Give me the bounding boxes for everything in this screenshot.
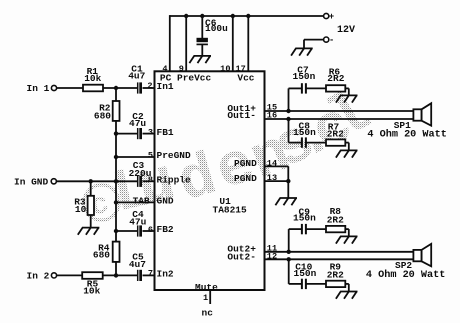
C6 label <box>205 17 217 28</box>
svg-text:9: 9 <box>179 64 184 74</box>
label TAB <box>133 196 150 207</box>
wire In2 c <box>143 274 155 276</box>
svg-text:12: 12 <box>267 252 277 262</box>
junction FB1 bus <box>114 131 118 135</box>
pin number 7 <box>148 268 153 278</box>
R7 refdes <box>328 121 340 132</box>
svg-text:In 1: In 1 <box>27 83 50 94</box>
capacitor C1 <box>138 82 142 93</box>
C4 value 47u <box>129 216 146 227</box>
svg-text:2R2: 2R2 <box>327 128 344 139</box>
wire C9-R8 <box>306 228 326 230</box>
pin number 9 <box>179 64 184 74</box>
wire C6 bottom <box>201 44 203 56</box>
node In 2 terminal <box>51 273 56 278</box>
svg-text:150n: 150n <box>294 268 317 279</box>
wire bus upper <box>115 88 117 101</box>
capacitor C2 <box>138 128 142 139</box>
wire R3 bottom <box>90 215 92 228</box>
svg-text:Vcc: Vcc <box>237 73 254 84</box>
resistor R8 <box>326 226 345 232</box>
svg-text:4u7: 4u7 <box>129 259 146 270</box>
wire +12V rail <box>170 15 324 17</box>
resistor R4 <box>113 242 120 262</box>
junction PGND <box>286 179 290 183</box>
R4 refdes <box>98 242 110 253</box>
R4 value 680 <box>93 250 110 261</box>
svg-text:47u: 47u <box>129 118 146 129</box>
junction pin10 <box>231 14 235 18</box>
pin number 15 <box>267 102 277 112</box>
pin number 14 <box>267 158 277 168</box>
C1 refdes <box>131 64 143 75</box>
wire C8-R7 <box>306 142 326 144</box>
U1 pin name Mute <box>195 282 218 293</box>
pin number 2 <box>147 81 152 91</box>
U1 pin name FB1 <box>157 127 174 138</box>
R2 refdes <box>99 102 111 113</box>
C3 value 220u <box>129 168 152 179</box>
svg-text:150n: 150n <box>293 71 316 82</box>
svg-text:14: 14 <box>267 158 277 168</box>
R3 value 10 <box>75 204 87 215</box>
wire FB1 <box>116 133 155 135</box>
C2 refdes <box>132 111 144 122</box>
svg-text:FB2: FB2 <box>157 224 174 235</box>
pin number 17 <box>235 64 245 74</box>
svg-text:8: 8 <box>148 175 153 185</box>
pin number 16 <box>267 111 277 121</box>
SP1 refdes <box>394 120 411 131</box>
wire Out1- <box>265 118 414 120</box>
junction pin9 <box>184 14 188 18</box>
resistor R1 <box>83 85 103 92</box>
pin number 8 <box>148 175 153 185</box>
junction In2/R4 <box>114 273 118 277</box>
svg-text:In GND: In GND <box>14 177 49 188</box>
wire In1 c <box>143 87 155 89</box>
U1 pin name PGND <box>234 173 257 184</box>
resistor R9 <box>326 281 345 287</box>
svg-text:4 Ohm 20 Watt: 4 Ohm 20 Watt <box>366 269 445 281</box>
R8 value 2R2 <box>327 215 344 226</box>
svg-text:In1: In1 <box>157 81 174 92</box>
svg-text:680: 680 <box>93 250 110 261</box>
speaker SP1 <box>413 103 431 125</box>
ground R7 <box>336 150 358 157</box>
U1 pin name Vcc <box>237 73 254 84</box>
svg-text:150n: 150n <box>293 213 316 224</box>
wire pin4 stub <box>169 15 171 71</box>
svg-text:GND: GND <box>157 196 174 207</box>
R5 value 10k <box>83 286 100 297</box>
svg-text:6: 6 <box>148 225 153 235</box>
svg-text:680: 680 <box>94 110 111 121</box>
SP2 value 4 Ohm 20 Watt <box>366 269 445 281</box>
C7 refdes <box>297 64 309 75</box>
label In GND <box>14 177 49 188</box>
label nc <box>202 308 214 319</box>
U1 pin name PreGND <box>157 150 192 161</box>
pin number 11 <box>267 243 277 253</box>
ground PGND <box>275 198 297 205</box>
wire R9-gnd <box>345 284 349 292</box>
U1 pin name In2 <box>157 269 174 280</box>
svg-text:2R2: 2R2 <box>327 270 344 281</box>
resistor R5 <box>82 272 103 279</box>
pin number 1 <box>203 293 208 303</box>
capacitor C10 <box>302 279 306 289</box>
svg-text:4 Ohm 20 Watt: 4 Ohm 20 Watt <box>367 129 446 141</box>
U1 pin name PGND <box>234 158 257 169</box>
junction InGND/R3 <box>89 179 93 183</box>
C1 value 4u7 <box>128 71 145 82</box>
wire Out2+ <box>265 251 414 253</box>
svg-text:17: 17 <box>235 64 245 74</box>
wire C7 branch <box>289 88 302 111</box>
C5 value 4u7 <box>129 259 146 270</box>
node In 1 terminal <box>51 85 56 90</box>
IC U1 TA8215 body <box>155 71 265 290</box>
SP1 value 4 Ohm 20 Watt <box>367 129 446 141</box>
capacitor C8 <box>302 137 306 147</box>
R1 refdes <box>87 66 99 77</box>
wire In2 a <box>57 274 82 276</box>
C2 value 47u <box>129 118 146 129</box>
svg-text:5: 5 <box>148 151 153 161</box>
svg-text:10k: 10k <box>83 286 100 297</box>
pin number 3 <box>148 127 153 137</box>
capacitor C6 <box>197 38 208 45</box>
C10 refdes <box>295 262 312 273</box>
wire In2 b <box>103 274 138 276</box>
capacitor C5 <box>138 270 142 281</box>
svg-text:10: 10 <box>220 64 230 74</box>
wire C9 branch <box>289 229 302 252</box>
capacitor C3 <box>138 176 142 187</box>
wire FB2 <box>116 230 155 232</box>
R6 value 2R2 <box>327 73 344 84</box>
svg-text:150n: 150n <box>293 127 316 138</box>
C7 value 150n <box>293 71 316 82</box>
ground R8 <box>336 236 358 243</box>
wire PGND13 <box>265 180 289 182</box>
junction C6 <box>200 14 204 18</box>
junction Out1+ tap <box>286 109 290 113</box>
U1 pin name GND <box>157 196 174 207</box>
wire In1 a <box>57 87 83 89</box>
node -12V terminal <box>324 37 329 42</box>
C3 refdes <box>133 160 145 171</box>
pin number 10 <box>220 64 230 74</box>
svg-text:In2: In2 <box>157 269 174 280</box>
svg-text:100u: 100u <box>205 23 228 34</box>
ground C6 <box>189 56 211 63</box>
wire 12V minus <box>304 40 324 49</box>
svg-text:13: 13 <box>267 173 277 183</box>
U1 pin name Out2+ <box>227 244 256 255</box>
wire R7-gnd <box>345 143 349 151</box>
junction pin17 <box>246 14 250 18</box>
wire Out1+ <box>265 110 414 112</box>
wire Out2- <box>265 258 414 260</box>
R1 value 10k <box>84 73 101 84</box>
node +12V terminal <box>324 13 329 18</box>
R5 refdes <box>87 279 99 290</box>
svg-text:2R2: 2R2 <box>327 215 344 226</box>
svg-text:10k: 10k <box>84 73 101 84</box>
C8 value 150n <box>293 127 316 138</box>
junction In1/R2 <box>114 86 118 90</box>
resistor R7 <box>326 139 345 145</box>
wire PGND-gnd <box>287 181 289 198</box>
C10 value 150n <box>294 268 317 279</box>
svg-text:PreGND: PreGND <box>157 150 192 161</box>
wire C10 branch <box>289 259 302 284</box>
svg-text:7: 7 <box>148 268 153 278</box>
SP2 refdes <box>395 260 412 271</box>
ground R6 <box>336 95 358 102</box>
R3 refdes <box>74 196 86 207</box>
svg-text:FB1: FB1 <box>157 127 174 138</box>
junction TAB bus <box>114 200 118 204</box>
junction InGND bus <box>114 179 118 183</box>
junction Out2+ tap <box>287 250 291 254</box>
C5 refdes <box>132 251 144 262</box>
C9 refdes <box>299 206 311 217</box>
ground R3 <box>78 228 100 235</box>
resistor R2 <box>113 101 120 121</box>
U1 pin name In1 <box>157 81 174 92</box>
junction FB2 bus <box>114 229 118 233</box>
wire In1 b <box>103 87 137 89</box>
resistor R3 <box>88 196 94 215</box>
wire pin17 stub <box>247 16 249 71</box>
wire bus lower <box>115 262 117 275</box>
pin number 13 <box>267 173 277 183</box>
svg-text:3: 3 <box>148 127 153 137</box>
U1 refdes <box>219 196 231 207</box>
speaker SP2 <box>413 244 431 266</box>
junction Out1- tap <box>286 117 290 121</box>
R6 refdes <box>329 67 341 78</box>
wire pin10 stub <box>232 16 234 71</box>
wire R6-gnd <box>345 88 349 95</box>
U1 value TA8215 <box>213 204 248 215</box>
svg-text:TA8215: TA8215 <box>213 204 248 215</box>
svg-text:In 2: In 2 <box>27 270 50 281</box>
wire bus mid <box>115 121 117 242</box>
wire R8-gnd <box>345 229 349 236</box>
svg-text:4: 4 <box>162 64 167 74</box>
resistor R6 <box>326 85 345 91</box>
pin number 5 <box>148 151 153 161</box>
node In GND terminal <box>51 179 56 184</box>
svg-text:TAB: TAB <box>133 196 150 207</box>
wire R3 top <box>90 181 92 196</box>
svg-text:Out2-: Out2- <box>227 251 256 262</box>
svg-text:2R2: 2R2 <box>327 73 344 84</box>
pin number 4 <box>162 64 167 74</box>
wire pin9 stub <box>185 16 187 71</box>
svg-text:12V: 12V <box>337 25 355 36</box>
R8 refdes <box>330 206 342 217</box>
ground R9 <box>336 292 358 299</box>
plus sign <box>329 12 334 22</box>
svg-text:1: 1 <box>203 293 208 303</box>
U1 pin name Out2- <box>227 251 256 262</box>
svg-text:2: 2 <box>147 81 152 91</box>
wire C8 branch <box>289 119 302 143</box>
capacitor C9 <box>302 224 306 234</box>
svg-text:PGND: PGND <box>234 173 257 184</box>
pin number 12 <box>267 252 277 262</box>
C6 value 100u <box>205 23 228 34</box>
C9 value 150n <box>293 213 316 224</box>
svg-text:Out1-: Out1- <box>227 110 256 121</box>
svg-text:10: 10 <box>75 204 87 215</box>
junction PreGND bus <box>114 155 118 159</box>
svg-text:+: + <box>329 12 334 22</box>
wire PGND14 <box>265 166 289 181</box>
label In 2 <box>27 270 50 281</box>
R9 value 2R2 <box>327 270 344 281</box>
C4 refdes <box>132 209 144 220</box>
svg-text:-: - <box>329 36 334 46</box>
junction Out2- tap <box>287 257 291 261</box>
U1 pin name Out1- <box>227 110 256 121</box>
svg-text:47u: 47u <box>129 216 146 227</box>
U1 pin name Out1+ <box>227 103 256 114</box>
capacitor C7 <box>302 83 306 93</box>
label In 1 <box>27 83 50 94</box>
wire C7-R6 <box>306 87 326 89</box>
wire Mute stub <box>209 290 211 304</box>
minus sign <box>329 36 334 46</box>
svg-text:PGND: PGND <box>234 158 257 169</box>
label 12V <box>337 25 355 36</box>
R2 value 680 <box>94 110 111 121</box>
U1 pin name Ripple <box>157 175 192 186</box>
svg-text:nc: nc <box>202 308 214 319</box>
wire InGND <box>56 180 154 182</box>
R7 value 2R2 <box>327 128 344 139</box>
R9 refdes <box>330 262 342 273</box>
wire C10-R9 <box>306 283 326 285</box>
svg-text:4u7: 4u7 <box>128 71 145 82</box>
wire TAB GND <box>116 201 155 203</box>
svg-text:Ripple: Ripple <box>157 175 192 186</box>
pin number 6 <box>148 225 153 235</box>
svg-text:16: 16 <box>267 111 277 121</box>
U1 pin name PC PreVcc <box>160 73 212 84</box>
svg-text:Mute: Mute <box>195 282 218 293</box>
wire C6 top <box>201 16 203 38</box>
U1 pin name FB2 <box>157 224 174 235</box>
ground 12V <box>291 48 313 55</box>
wire PreGND <box>116 156 155 158</box>
capacitor C4 <box>138 225 142 236</box>
C8 refdes <box>299 120 311 131</box>
